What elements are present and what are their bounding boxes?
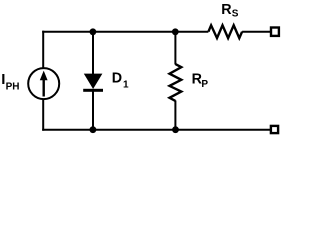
wire left branch lower [42,100,44,131]
terminal top right square [271,28,279,36]
current source arrow head [40,71,48,81]
resistor RS zigzag [208,25,242,38]
diode D1 cathode bar [83,89,103,92]
wire diode branch upper [92,31,94,76]
svg-text:D: D [112,71,122,87]
svg-text:P: P [201,79,208,90]
svg-text:R: R [221,2,232,18]
wire RS to terminal [242,31,271,33]
wire bottom rail [42,129,270,131]
node junction dot bottom right [172,126,179,133]
node junction dot bottom left [90,126,97,133]
wire RP branch lower [174,101,176,131]
wire left branch upper [42,31,44,69]
svg-text:S: S [232,9,239,20]
resistor RP zigzag [170,64,182,101]
terminal bottom right square [271,126,278,133]
wire top rail [42,31,208,33]
node junction dot top right [172,28,179,35]
svg-text:PH: PH [6,82,20,93]
wire diode branch lower [92,90,94,131]
node junction dot top left [90,28,97,35]
current source I_PH circle [28,68,59,99]
diode D1 triangle [84,74,103,89]
svg-text:1: 1 [123,79,129,90]
current source arrow shaft [43,80,45,97]
wire RP branch upper [174,31,176,65]
